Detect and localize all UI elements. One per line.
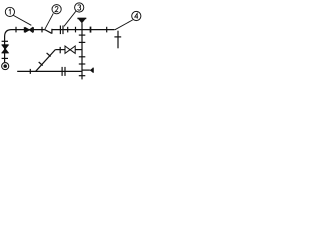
flange tick branch y64 — [79, 63, 86, 65]
flange tick on diagonal 1 — [39, 62, 43, 66]
balloon 1 — [5, 7, 14, 16]
flange tick x90.5 — [90, 27, 92, 33]
drain stub right of branch — [82, 69, 90, 71]
hose connection (solid arrow) — [90, 68, 94, 73]
balloon 2 — [52, 5, 61, 14]
flange tick x30.3 bottom — [29, 69, 31, 74]
leader 2 — [45, 13, 54, 29]
flange tick below riser valve — [2, 57, 8, 59]
globe valve (closed, solid) on riser — [2, 45, 8, 53]
flange tick on diagonal 2 — [47, 53, 51, 57]
flange tick branch y75.7 — [79, 75, 86, 77]
main pipe left segment — [12, 29, 45, 31]
leader 3 — [64, 11, 76, 26]
bypass pipe to branch — [75, 49, 82, 51]
check valve (item 2) — [45, 29, 52, 34]
bypass pipe horizontal — [55, 49, 65, 51]
flange tick branch y56.8 — [79, 56, 86, 58]
riser diagonal pipe — [36, 50, 56, 72]
flange tick x42 — [41, 27, 43, 33]
union/flange pair (item 3) — [60, 26, 63, 35]
vent funnel on branch top — [77, 17, 86, 19]
flange tick x67.7 — [67, 27, 69, 33]
balloon 4 — [132, 11, 141, 20]
flange tick branch y42.4 — [79, 41, 86, 43]
union/flange pair bottom — [62, 67, 65, 76]
closed drain symbol (circle with dot) — [2, 63, 9, 70]
inlet elbow and left riser — [5, 30, 12, 63]
background — [0, 0, 143, 91]
flange tick x106.7 — [106, 27, 108, 33]
flange tick x16 — [15, 27, 17, 33]
leader 1 — [13, 15, 31, 25]
flange tick on riser — [2, 40, 8, 42]
balloon 3 — [75, 3, 84, 12]
flange tick x59.8 bypass — [59, 47, 61, 53]
bottom pipe — [17, 70, 82, 72]
flange tick x75.5 — [75, 27, 77, 33]
gate valve (open) on bypass — [65, 46, 75, 53]
outlet pipe right — [117, 31, 119, 49]
gate valve V1 (solid) on main pipe — [24, 27, 33, 32]
branch pipe (vertical) — [81, 23, 83, 79]
main pipe right segment — [52, 29, 115, 31]
flange tick branch y35 — [79, 34, 86, 36]
leader 4 — [115, 20, 133, 30]
flange tick on outlet — [114, 36, 121, 38]
